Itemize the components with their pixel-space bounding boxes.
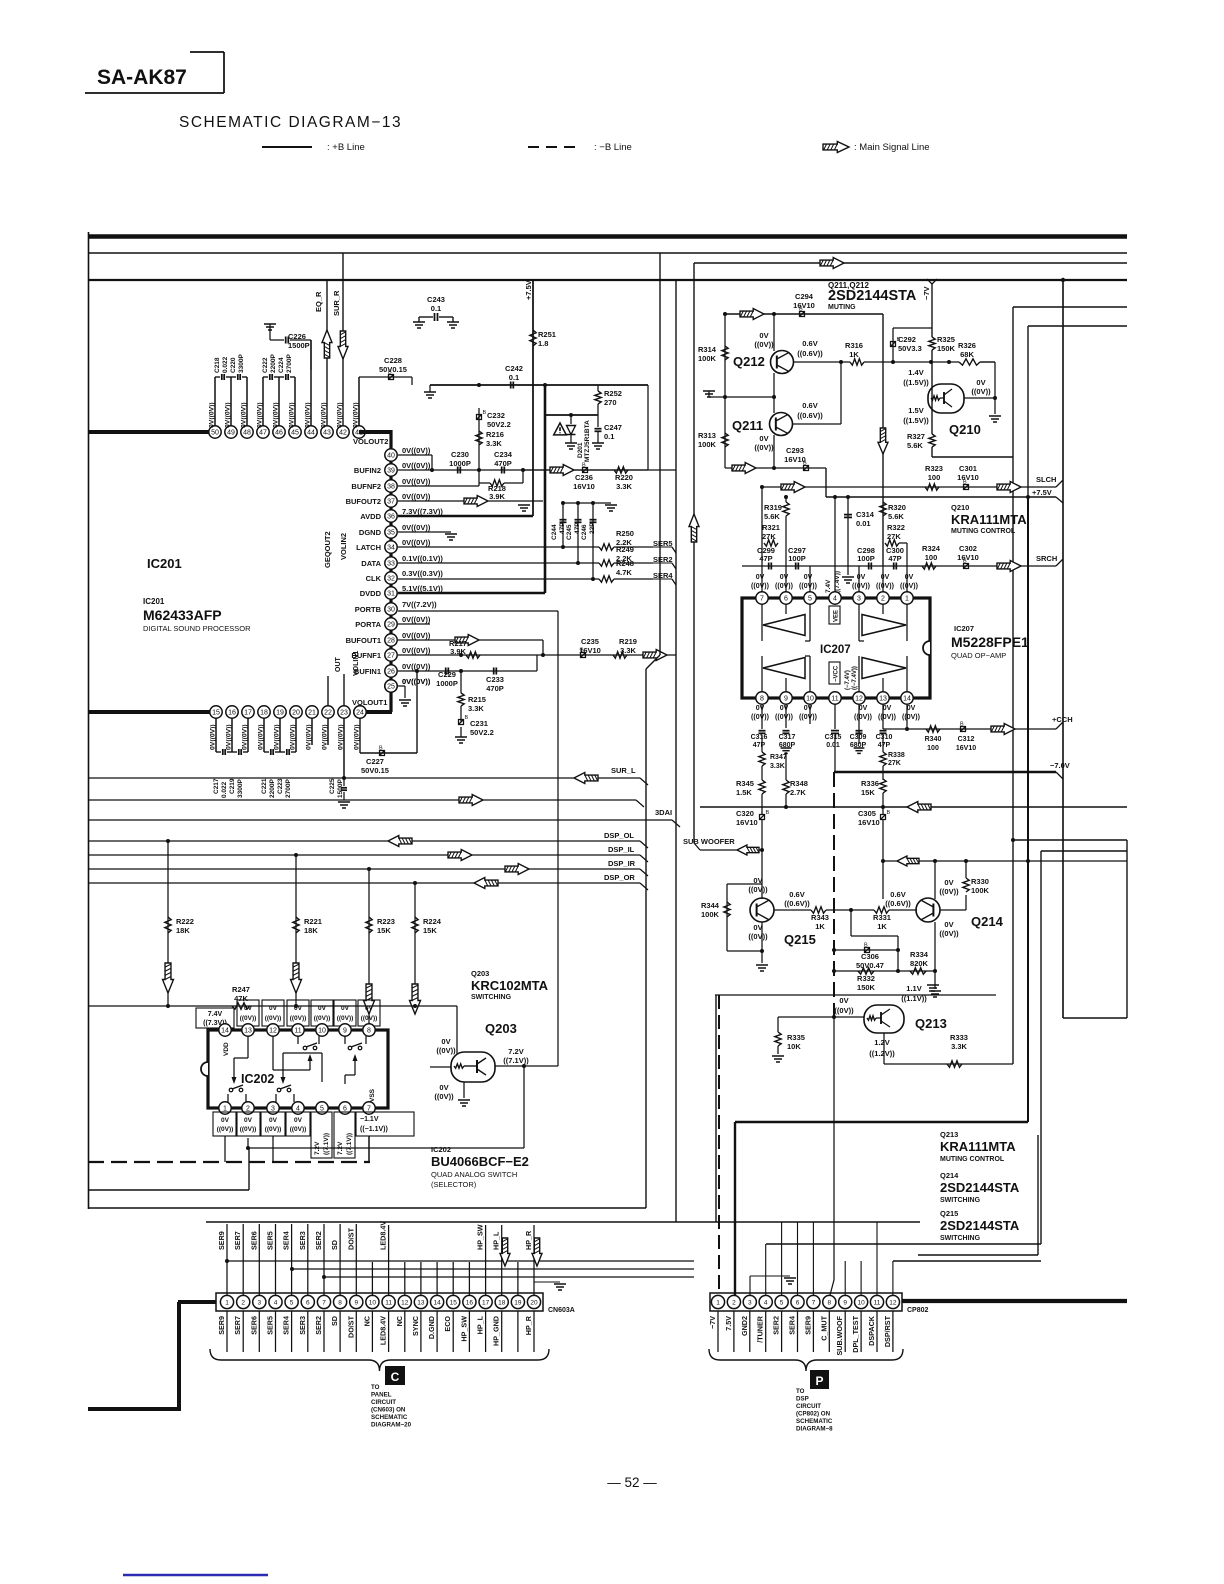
svg-text:0V: 0V [859, 705, 868, 712]
label 7.4V pin14 [196, 1008, 234, 1028]
svg-text:17: 17 [482, 1299, 490, 1306]
svg-text:R219: R219 [619, 637, 637, 646]
svg-text:2: 2 [732, 1299, 736, 1306]
wire -7V branch down (dashed -B line) [832, 772, 836, 1017]
svg-text:0V: 0V [881, 574, 890, 581]
svg-text:50V0.15: 50V0.15 [379, 365, 407, 374]
svg-text:0V: 0V [780, 705, 789, 712]
label Q210 1.4V [903, 368, 929, 387]
label VOLOUT2 [353, 437, 388, 446]
wire C_MUT vertical [830, 1015, 836, 1295]
svg-text:PORTB: PORTB [355, 605, 382, 614]
svg-text:DSP/RST: DSP/RST [883, 1315, 892, 1347]
svg-text:BUFIN2: BUFIN2 [354, 466, 381, 475]
svg-text:47P: 47P [878, 742, 891, 749]
svg-text:SA-AK87: SA-AK87 [97, 66, 187, 89]
svg-text:Q214: Q214 [940, 1171, 959, 1180]
capacitor C316 [751, 731, 768, 749]
svg-text:((0V)): ((0V)) [751, 714, 769, 721]
svg-text:: −B Line: : −B Line [594, 142, 632, 153]
svg-text:SER2: SER2 [314, 1231, 323, 1250]
net -7V [922, 279, 937, 300]
CP802 pin 12 [886, 1295, 899, 1308]
IC201 pin 47 [257, 426, 269, 438]
svg-text:18: 18 [260, 710, 268, 717]
svg-text:((0V)): ((0V)) [337, 1015, 354, 1022]
CN603A pin 10 [366, 1295, 379, 1308]
svg-text:MUTING CONTROL: MUTING CONTROL [940, 1156, 1005, 1163]
wire Q214 emitter [929, 910, 941, 997]
svg-text:IC201: IC201 [143, 597, 165, 606]
svg-text:C306: C306 [861, 952, 879, 961]
IC202 pin 10 [316, 1024, 328, 1036]
CN603A pin 1 [220, 1295, 233, 1308]
capacitor C229 [436, 668, 458, 689]
wire Q215 right [774, 909, 811, 911]
svg-text:20: 20 [530, 1299, 538, 1306]
resistor R332 [857, 968, 876, 992]
svg-text:PANEL: PANEL [371, 1392, 392, 1399]
svg-text:DSP_OR: DSP_OR [604, 873, 635, 882]
resistor R316 [845, 341, 864, 365]
resistor R216 [476, 430, 504, 448]
svg-text:C302: C302 [959, 544, 977, 553]
svg-text:: Main Signal Line: : Main Signal Line [854, 142, 930, 153]
capacitor C230 [449, 450, 471, 474]
CN603A pin 3 [253, 1295, 266, 1308]
svg-text:28: 28 [387, 638, 395, 645]
IC207 internal wires bottom [762, 656, 907, 692]
IC202 pin 5 [316, 1102, 328, 1114]
svg-text:((−1.1V)): ((−1.1V)) [360, 1126, 388, 1133]
svg-text:(−7.4V): (−7.4V) [845, 670, 851, 690]
wire -7V vertical [931, 284, 933, 457]
svg-text:HP_R: HP_R [524, 1315, 533, 1335]
IC202 pin 7 [363, 1102, 375, 1114]
svg-text:0V((0V)): 0V((0V)) [209, 402, 216, 428]
svg-text:29: 29 [387, 622, 395, 629]
svg-text:((0V)): ((0V)) [436, 1046, 456, 1055]
ground above C226 [264, 324, 276, 340]
capacitor C317 [779, 704, 796, 753]
resistor R248 [599, 559, 634, 582]
svg-text:Q215: Q215 [784, 932, 816, 947]
svg-text:18K: 18K [176, 926, 190, 935]
svg-text:5.6K: 5.6K [764, 512, 780, 521]
resistor R343 [811, 907, 829, 931]
signal arrow SUR_R down [338, 331, 348, 359]
svg-text:HP_SW: HP_SW [476, 1224, 485, 1250]
svg-text:R251: R251 [538, 330, 556, 339]
svg-text:12: 12 [401, 1299, 409, 1306]
svg-text:15: 15 [450, 1299, 458, 1306]
resistor R345 [736, 779, 765, 797]
wire h1269 [290, 1267, 694, 1271]
IC201 pin 27 BUFNF1 [351, 646, 430, 661]
wire C232/R216 branch [478, 408, 480, 486]
wire pin38 BUFNF2 line [398, 485, 479, 487]
svg-text:C243: C243 [427, 295, 445, 304]
wire BUFOUT1 line [398, 640, 543, 655]
title block SA-AK87 [85, 52, 224, 93]
labels CN603A above [217, 1221, 533, 1250]
svg-text:42: 42 [339, 430, 347, 437]
svg-text:C229: C229 [438, 670, 456, 679]
Q203 type label [471, 969, 549, 1001]
IC201 pin 42 [337, 426, 349, 438]
svg-text:27K: 27K [888, 760, 901, 767]
svg-text:0V((0V)): 0V((0V)) [337, 402, 344, 428]
svg-text:7.4V: 7.4V [825, 579, 832, 593]
node EQ_R [314, 280, 327, 426]
capacitor C228 [359, 356, 412, 426]
svg-text:R340: R340 [925, 736, 942, 743]
IC202 pin 2 [242, 1102, 254, 1114]
transistor Q203 [451, 1052, 495, 1082]
svg-text:SCHEMATIC: SCHEMATIC [796, 1418, 833, 1425]
labels IC207 top voltages [751, 574, 918, 590]
tag C [385, 1366, 405, 1385]
svg-text:40: 40 [387, 453, 395, 460]
IC201 pin 33 DATA [361, 554, 443, 569]
wire h1277 [322, 1275, 694, 1279]
svg-text:R338: R338 [888, 752, 905, 759]
svg-text:BUFOUT1: BUFOUT1 [346, 636, 381, 645]
page number [607, 1475, 657, 1490]
svg-text:9: 9 [843, 1299, 847, 1306]
svg-text:SER4: SER4 [788, 1316, 797, 1335]
capacitor C294 [793, 292, 815, 317]
svg-text:C242: C242 [505, 364, 523, 373]
IC201 pin 35 DGND [359, 523, 431, 538]
svg-text:R321: R321 [762, 523, 780, 532]
wire h1122 thick [735, 1121, 1028, 1123]
CN603A pin 12 [398, 1295, 411, 1308]
svg-text:1.2V: 1.2V [874, 1038, 889, 1047]
label CN603A [548, 1307, 575, 1314]
svg-text:IC201: IC201 [147, 556, 182, 571]
svg-text:3300P: 3300P [238, 354, 245, 373]
resistor R330 [963, 861, 990, 895]
wire rail y252 [88, 252, 1127, 254]
IC201 pin 23 [338, 706, 350, 718]
label voltages row1 [209, 402, 360, 428]
capacitor C222 [262, 354, 279, 380]
svg-text:((0.6V)): ((0.6V)) [784, 899, 810, 908]
svg-text:0V: 0V [905, 574, 914, 581]
svg-text:R252: R252 [604, 389, 622, 398]
svg-text:0V((0V)): 0V((0V)) [273, 402, 280, 428]
label pin6 voltage [334, 1112, 355, 1158]
label CP802 [907, 1307, 929, 1314]
wire IC202 bottom pins [225, 1136, 524, 1162]
capacitor C234 [494, 450, 513, 474]
svg-text:19: 19 [514, 1299, 522, 1306]
svg-text:100: 100 [928, 473, 941, 482]
svg-text:0V: 0V [244, 1117, 253, 1124]
svg-text:((0V)): ((0V)) [878, 714, 896, 721]
wire SRCH line [742, 565, 1056, 567]
resistor R313 [698, 431, 728, 449]
labels CN603A below [217, 1311, 534, 1352]
wire DATA SER2 line [398, 561, 599, 565]
capacitor C218 [214, 356, 231, 380]
wire R322 right [899, 543, 907, 592]
svg-text:R314: R314 [698, 345, 717, 354]
svg-text:1.4V: 1.4V [908, 368, 923, 377]
svg-text:SCHEMATIC DIAGRAM−13: SCHEMATIC DIAGRAM−13 [179, 114, 402, 131]
svg-text:NC: NC [362, 1316, 371, 1326]
svg-text:SRCH: SRCH [1036, 554, 1057, 563]
svg-text:((0V)): ((0V)) [902, 714, 920, 721]
IC201 pin 17 [242, 706, 254, 718]
signal arrow v694 up [689, 514, 699, 542]
svg-text:((0V)): ((0V)) [217, 1126, 234, 1133]
signal arrow SUR_L [574, 773, 598, 784]
capacitor C220 [230, 354, 247, 380]
svg-text:TO: TO [796, 1388, 805, 1395]
svg-text:0V: 0V [441, 1037, 450, 1046]
transistor Q214 [916, 898, 1004, 929]
svg-text:30: 30 [387, 607, 395, 614]
net +7.5V [524, 280, 533, 300]
brace CP802 [709, 1349, 903, 1371]
wire Q213 emitter [884, 1033, 1013, 1064]
svg-text:B: B [379, 746, 383, 752]
svg-text:100P: 100P [857, 554, 875, 563]
svg-text:C301: C301 [959, 464, 977, 473]
svg-text:16: 16 [466, 1299, 474, 1306]
CN603A pin 11 [382, 1295, 395, 1308]
svg-text:5.6K: 5.6K [888, 512, 904, 521]
svg-text:VEE: VEE [834, 610, 840, 622]
wire thick CN entry [88, 1302, 216, 1409]
svg-text:0.3V((0.3V)): 0.3V((0.3V)) [402, 569, 443, 578]
wire rail y307 [1013, 306, 1127, 308]
labels IC207 bottom voltages [751, 705, 920, 721]
IC201 pin 26 BUFIN1 [354, 662, 431, 677]
legend +B line [262, 142, 365, 153]
svg-text:16V10: 16V10 [858, 818, 880, 827]
svg-text:1K: 1K [849, 350, 859, 359]
wire h1244 [766, 1243, 1041, 1245]
svg-text:11: 11 [385, 1299, 392, 1306]
IC202 switch 2 [345, 1036, 366, 1084]
Q203 collector wire [495, 1064, 558, 1148]
capacitor C306 [834, 943, 898, 971]
svg-text:C293: C293 [786, 446, 804, 455]
svg-text:16V10: 16V10 [957, 553, 979, 562]
svg-text:DGND: DGND [359, 528, 382, 537]
capacitor C233 [486, 668, 504, 694]
wire pin37 BUFOUT2 line [398, 500, 543, 502]
wire Q210 base [931, 362, 933, 384]
svg-text:1500P: 1500P [288, 341, 310, 350]
label Q213 name [915, 1016, 947, 1031]
wire pin leads below row2 [216, 718, 328, 752]
resistor R344 [701, 884, 762, 951]
svg-text:C: C [391, 1370, 400, 1384]
wire R331 to Q214 [889, 909, 917, 911]
label VDD [223, 1042, 230, 1056]
svg-text:0V((0V)): 0V((0V)) [257, 402, 264, 428]
label Q203 0V a [436, 1037, 456, 1055]
svg-text:0V: 0V [839, 996, 848, 1005]
svg-text:0.1: 0.1 [509, 373, 519, 382]
svg-text:50V0.15: 50V0.15 [361, 766, 389, 775]
resistor R333 [947, 1033, 968, 1067]
IC201 pin 32 CLK [366, 569, 444, 584]
wire y971 [834, 970, 935, 972]
capacitor C301 [957, 464, 979, 490]
capacitor C227 [360, 669, 419, 775]
svg-text:1: 1 [716, 1299, 720, 1306]
svg-text:R249: R249 [616, 545, 634, 554]
svg-text:Q203: Q203 [485, 1021, 517, 1036]
svg-text:22: 22 [324, 710, 332, 717]
IC201 pin 22 [322, 706, 334, 718]
tag P [810, 1370, 829, 1389]
svg-text:100K: 100K [698, 440, 717, 449]
CP802 pin 8 [823, 1295, 836, 1308]
svg-text:((1.5V)): ((1.5V)) [903, 378, 929, 387]
svg-text:B: B [388, 370, 392, 376]
wire rail y326 [1028, 325, 1127, 327]
IC207 pin 12 [853, 692, 865, 704]
svg-text:0V((0V)): 0V((0V)) [402, 646, 431, 655]
svg-text:23: 23 [340, 710, 348, 717]
svg-text:((7.4V)): ((7.4V)) [834, 571, 841, 593]
IC207 pin 3 [853, 592, 865, 604]
signal arrow EQ_R up [322, 330, 332, 358]
svg-text:((0V)): ((0V)) [240, 1126, 257, 1133]
svg-text:C231: C231 [470, 719, 488, 728]
net -7.0V [1050, 761, 1070, 779]
transistor Q213 [864, 1005, 904, 1033]
wire h807 [700, 805, 1127, 809]
wire C292 top [893, 327, 932, 329]
wire pin9-10 stub [809, 704, 811, 724]
signal arrow DSP_IR [505, 864, 529, 875]
CN603A pin 16 [463, 1295, 476, 1308]
wire thick CP802 right [902, 1299, 1127, 1303]
connector CP802 box [710, 1293, 902, 1311]
wire v1063 [1062, 280, 1064, 1018]
IC207 internal wires top [762, 604, 907, 641]
svg-text:0V((0V)): 0V((0V)) [402, 631, 431, 640]
connector CN603A box [216, 1293, 543, 1311]
IC207 pin 10 [804, 692, 816, 704]
IC201 pin 30 PORTB [355, 600, 437, 615]
svg-text:0V((0V)): 0V((0V)) [226, 724, 233, 750]
svg-text:0V: 0V [294, 1005, 303, 1012]
wire pin22/23 leads [328, 674, 344, 706]
svg-text:0V((0V)): 0V((0V)) [210, 724, 217, 750]
svg-text:0V: 0V [907, 705, 916, 712]
svg-text:DSPACK: DSPACK [867, 1315, 876, 1346]
svg-text:CN603A: CN603A [548, 1307, 575, 1314]
svg-text:R336: R336 [861, 779, 879, 788]
svg-text:6: 6 [784, 596, 788, 603]
CN603A pin 4 [269, 1295, 282, 1308]
svg-text:R223: R223 [377, 917, 395, 926]
IC207 pin 11 [829, 692, 841, 704]
label pin4 voltage [825, 571, 841, 593]
svg-text:0V((0V)): 0V((0V)) [289, 402, 296, 428]
CN603A pin 15 [447, 1295, 460, 1308]
svg-text:C246: C246 [581, 524, 588, 540]
svg-text:((0V)): ((0V)) [900, 583, 918, 590]
IC207 type label [951, 624, 1029, 660]
svg-text:100K: 100K [971, 886, 990, 895]
label Q214 0.6V [885, 890, 911, 908]
wire -7.0V line [834, 771, 1056, 774]
label Q213 1.2V [869, 1038, 895, 1058]
svg-text:C320: C320 [736, 809, 754, 818]
svg-text:33: 33 [387, 561, 395, 568]
net SER5 [614, 539, 676, 553]
svg-text:150K: 150K [937, 344, 956, 353]
svg-text:7.4V: 7.4V [208, 1011, 223, 1018]
node junction 1063/278 [1061, 278, 1065, 282]
svg-text:B: B [465, 715, 469, 721]
capacitor C223 [277, 749, 296, 798]
svg-text:R343: R343 [811, 913, 829, 922]
svg-text:8: 8 [367, 1028, 371, 1035]
wires CP802 above pins [766, 1222, 893, 1295]
svg-text:C315: C315 [825, 734, 842, 741]
resistor R215 [458, 671, 486, 713]
IC207 pin 1 [901, 592, 913, 604]
svg-text:PORTA: PORTA [355, 620, 381, 629]
resistor R223 [366, 869, 395, 1024]
net SER2 [614, 555, 676, 569]
wire h855 [1041, 850, 1127, 852]
svg-text:2700P: 2700P [285, 779, 292, 798]
svg-text:((0V)): ((0V)) [290, 1126, 307, 1133]
svg-text:C305: C305 [858, 809, 876, 818]
resistor R348 [783, 752, 808, 807]
capacitor C226 [270, 332, 311, 370]
svg-text:TO: TO [371, 1384, 380, 1391]
svg-text:LATCH: LATCH [356, 543, 381, 552]
svg-text:21: 21 [308, 710, 316, 717]
capacitor C314 [844, 510, 875, 528]
capacitor C232 [477, 410, 511, 429]
svg-text:R224: R224 [423, 917, 442, 926]
CP802 pin 1 [711, 1295, 724, 1308]
svg-text:KRA111MTA: KRA111MTA [951, 512, 1027, 527]
capacitor C309 [850, 704, 867, 753]
svg-text:0.01: 0.01 [856, 519, 871, 528]
IC201 pin 15 [210, 706, 222, 718]
svg-text:((0V)): ((0V)) [751, 583, 769, 590]
svg-text:68K: 68K [960, 350, 974, 359]
net +CCH [1052, 715, 1073, 729]
signal arrow SLCH b [997, 482, 1021, 493]
resistor R247 [88, 985, 457, 1054]
svg-text:0V((0V)): 0V((0V)) [321, 402, 328, 428]
svg-text:SER3: SER3 [298, 1231, 307, 1250]
svg-text:QUAD OP−AMP: QUAD OP−AMP [951, 651, 1006, 660]
label Q215 0.6V [784, 890, 810, 908]
wire +7.5V vertical [532, 280, 534, 516]
svg-text:0V((0V)): 0V((0V)) [402, 538, 431, 547]
svg-text:15K: 15K [423, 926, 437, 935]
IC202 box [201, 1030, 388, 1108]
schematic title [179, 114, 402, 131]
CN603A pin 14 [431, 1295, 444, 1308]
